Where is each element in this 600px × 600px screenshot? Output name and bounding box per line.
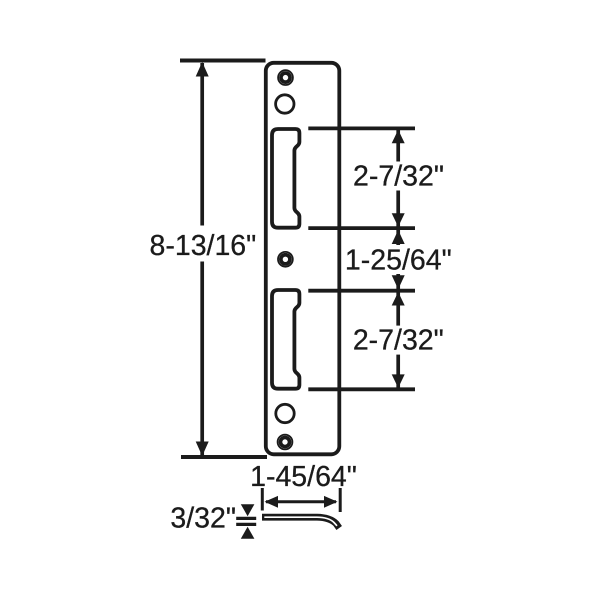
- svg-text:1-45/64": 1-45/64": [250, 461, 357, 493]
- svg-text:1-25/64": 1-25/64": [345, 244, 452, 276]
- svg-text:8-13/16": 8-13/16": [150, 230, 257, 262]
- svg-text:3/32": 3/32": [170, 503, 236, 535]
- svg-text:2-7/32": 2-7/32": [353, 324, 444, 356]
- svg-text:2-7/32": 2-7/32": [353, 161, 444, 193]
